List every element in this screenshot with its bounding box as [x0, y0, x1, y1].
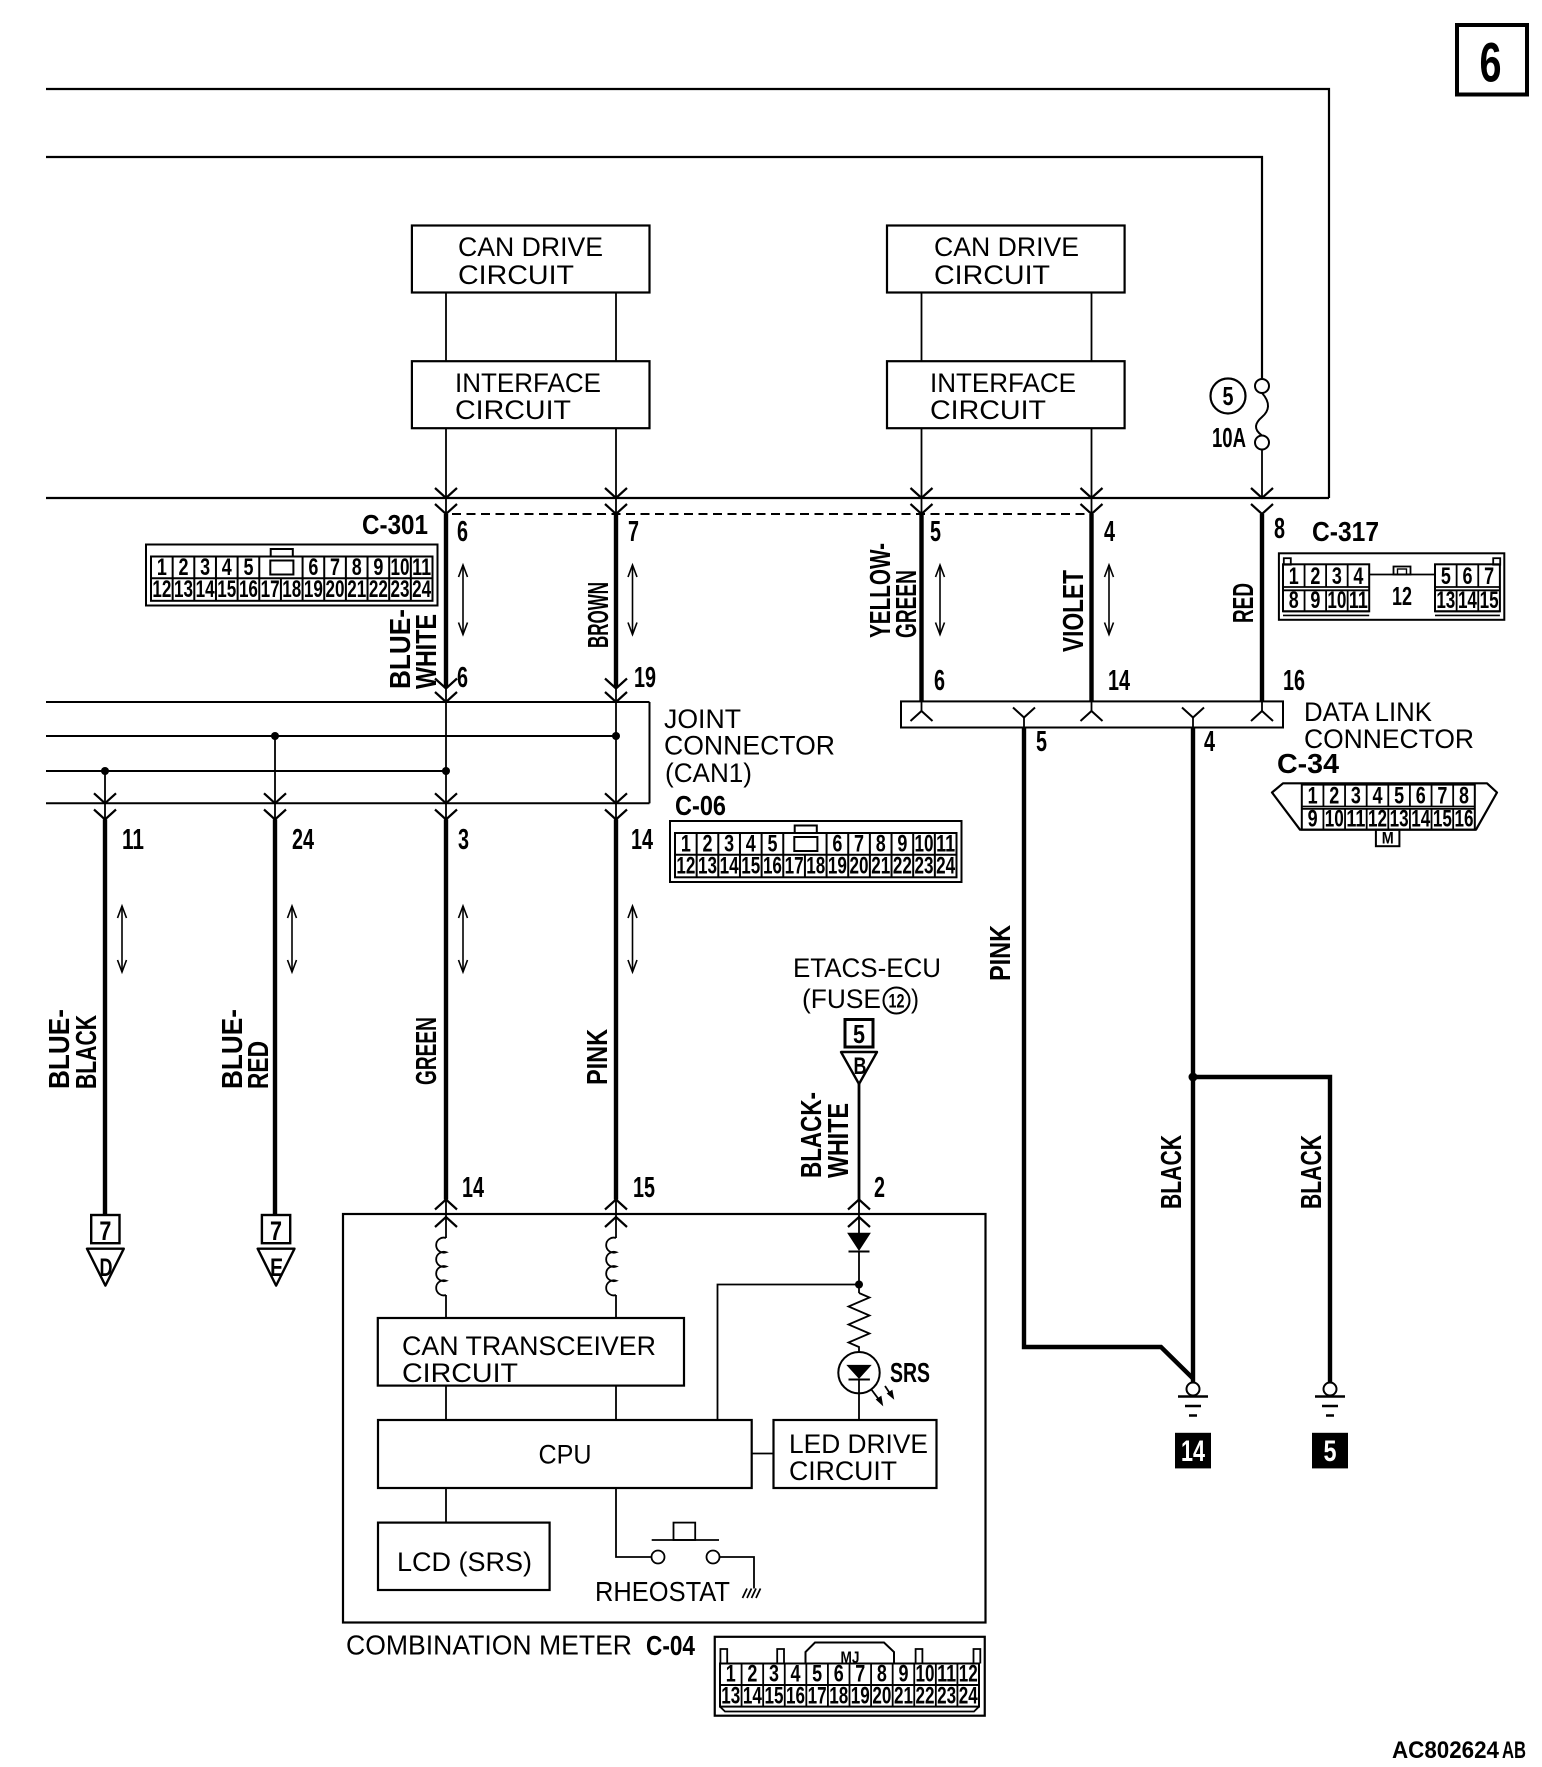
- svg-text:12: 12: [889, 992, 905, 1013]
- svg-text:C-34: C-34: [1277, 748, 1339, 779]
- wire GREEN (JC pin3 to meter pin14): [444, 820, 448, 1200]
- terminal fork out DLC (x1193): [1182, 708, 1204, 728]
- wire JC vertical x446: [445, 689, 447, 820]
- arrow bidirectional (BLUE-BLACK): [121, 906, 123, 972]
- node junction dot BLACK branch: [1189, 1073, 1198, 1082]
- svg-text:15: 15: [1480, 587, 1499, 614]
- arrow bidirectional (GREEN): [462, 906, 464, 972]
- wire fuse to bus: [1261, 450, 1263, 499]
- wire U2 pin to bus (x446): [445, 428, 447, 514]
- wire JC vertical x616: [615, 689, 617, 820]
- wire U4 pin to bus (x921): [921, 428, 923, 514]
- svg-text:14: 14: [1181, 1435, 1205, 1468]
- wire BLACK branch to ground 5: [1193, 1077, 1330, 1383]
- arrow bidirectional (PINK): [632, 906, 634, 972]
- label wire VIOLET: [1058, 570, 1090, 652]
- label wire BLACK (left run): [1156, 1135, 1188, 1209]
- svg-text:11: 11: [1349, 587, 1368, 614]
- wire junction to CPU: [718, 1285, 860, 1421]
- arrow bidirectional (BLUE-RED): [291, 906, 293, 972]
- svg-text:(CAN1): (CAN1): [665, 758, 752, 788]
- wire VIOLET (pin4 to DLC pin14): [1089, 514, 1093, 701]
- document code AC802624AB: [1392, 1737, 1526, 1764]
- wire RED (fuse to DLC pin16): [1260, 514, 1264, 701]
- terminal fork in DLC (x921.5): [911, 701, 933, 721]
- wire CPU to LCD: [445, 1488, 447, 1523]
- svg-text:): ): [911, 984, 919, 1014]
- terminal fork in DLC (x1262): [1251, 701, 1273, 721]
- svg-text:3: 3: [1332, 563, 1342, 590]
- wire LED to LED drive circuit: [858, 1393, 860, 1420]
- svg-text:BLACK: BLACK: [1156, 1135, 1188, 1209]
- svg-text:INTERFACE: INTERFACE: [455, 368, 601, 398]
- wire BLACK (DLC pin4 to ground 14): [1191, 728, 1195, 1383]
- connector C-34 pin table: [1272, 783, 1497, 848]
- terminal fork in DLC (x1091.5): [1081, 701, 1103, 721]
- connector crossing arrows meter pin 15: [605, 1200, 627, 1228]
- svg-text:5: 5: [1324, 1435, 1337, 1468]
- inductor coil L2: [606, 1238, 616, 1296]
- svg-text:LCD (SRS): LCD (SRS): [397, 1547, 532, 1577]
- svg-text:20: 20: [326, 576, 345, 603]
- svg-text:16: 16: [763, 853, 782, 880]
- svg-text:RHEOSTAT: RHEOSTAT: [595, 1576, 730, 1607]
- svg-text:10: 10: [1325, 806, 1344, 833]
- svg-text:PINK: PINK: [582, 1029, 614, 1085]
- inductor coil L1: [436, 1238, 446, 1296]
- junction block JOINT CONNECTOR (CAN1): [46, 702, 650, 803]
- svg-text:PINK: PINK: [985, 925, 1017, 981]
- svg-text:C-06: C-06: [675, 790, 726, 821]
- wire power rail B (second): [46, 157, 1262, 380]
- connector crossing arrows at bus (x921): [911, 488, 933, 514]
- wire pin2 to diode: [858, 1200, 860, 1234]
- svg-text:6: 6: [1462, 563, 1472, 590]
- connector crossing arrows JC bottom (x275): [264, 793, 286, 819]
- block CAN TRANSCEIVER CIRCUIT: [378, 1318, 684, 1388]
- svg-text:21: 21: [894, 1682, 913, 1709]
- svg-text:14: 14: [743, 1682, 762, 1709]
- resistor R1: [849, 1293, 870, 1352]
- svg-text:VIOLET: VIOLET: [1058, 570, 1090, 652]
- svg-text:8: 8: [1274, 513, 1285, 545]
- wire CPU to LED drive circuit: [752, 1453, 774, 1455]
- svg-text:7: 7: [99, 1216, 111, 1246]
- svg-text:14: 14: [720, 853, 739, 880]
- svg-text:INTERFACE: INTERFACE: [930, 368, 1076, 398]
- svg-text:9: 9: [1308, 806, 1318, 833]
- block CPU: [378, 1420, 752, 1488]
- svg-text:17: 17: [808, 1682, 827, 1709]
- connector crossing arrows at bus (x616): [605, 488, 627, 514]
- svg-text:15: 15: [764, 1682, 783, 1709]
- terminal fork out DLC (x1024): [1013, 708, 1035, 728]
- svg-text:21: 21: [347, 576, 366, 603]
- svg-text:11: 11: [1346, 806, 1365, 833]
- svg-text:18: 18: [806, 853, 825, 880]
- svg-text:18: 18: [829, 1682, 848, 1709]
- svg-text:CONNECTOR: CONNECTOR: [664, 731, 835, 761]
- svg-text:C-301: C-301: [362, 509, 428, 540]
- connector C-04 pin table: [715, 1637, 985, 1716]
- svg-text:AB: AB: [1502, 1737, 1526, 1764]
- svg-text:19: 19: [304, 576, 323, 603]
- connector crossing arrows JC bottom (x105): [94, 793, 116, 819]
- wire transceiver to CPU (x446): [445, 1386, 447, 1420]
- svg-text:14: 14: [462, 1172, 484, 1204]
- svg-text:6: 6: [934, 665, 945, 697]
- ground 5: [1312, 1383, 1348, 1469]
- svg-text:16: 16: [239, 576, 258, 603]
- wire JC vertical x105: [104, 771, 106, 820]
- svg-text:22: 22: [916, 1682, 935, 1709]
- arrow bidirectional (VIOLET): [1108, 565, 1110, 635]
- svg-text:15: 15: [1433, 806, 1452, 833]
- wire meter pin14 lead: [445, 1200, 447, 1239]
- wire rheostat to internal ground: [720, 1557, 755, 1589]
- node junction dot (105,771): [101, 767, 109, 775]
- svg-text:24: 24: [292, 824, 314, 856]
- label wire BROWN: [583, 582, 615, 648]
- connector C-301 pin table: [146, 545, 438, 606]
- wire BLUE-WHITE (C-301 pin6 to JC pin6): [444, 514, 448, 688]
- svg-text:19: 19: [851, 1682, 870, 1709]
- node junction dot (859,1284.5): [855, 1281, 863, 1289]
- block CAN DRIVE CIRCUIT (left) U1: [412, 226, 650, 293]
- label wire BLUE-RED: [217, 1009, 275, 1089]
- svg-text:21: 21: [871, 853, 890, 880]
- svg-text:18: 18: [282, 576, 301, 603]
- svg-text:D: D: [100, 1254, 113, 1282]
- arrow bidirectional (BLUE-WHITE): [462, 565, 464, 635]
- svg-text:20: 20: [872, 1682, 891, 1709]
- svg-text:19: 19: [634, 662, 656, 694]
- block COMBINATION METER outline: [343, 1214, 986, 1623]
- ground 14: [1175, 1383, 1211, 1469]
- power feed box 5: [845, 1019, 873, 1049]
- wire power rail A (top): [46, 89, 1329, 498]
- label wire BLACK (right run): [1296, 1135, 1328, 1209]
- block INTERFACE CIRCUIT (right) U4: [887, 361, 1125, 428]
- svg-text:15: 15: [217, 576, 236, 603]
- svg-text:12: 12: [1392, 581, 1412, 611]
- svg-text:B: B: [854, 1053, 867, 1080]
- svg-text:RED: RED: [243, 1041, 275, 1089]
- svg-text:23: 23: [391, 576, 410, 603]
- svg-text:14: 14: [1458, 587, 1477, 614]
- svg-text:5: 5: [1036, 726, 1047, 758]
- svg-text:CIRCUIT: CIRCUIT: [934, 260, 1050, 290]
- svg-text:17: 17: [785, 853, 804, 880]
- svg-text:14: 14: [631, 824, 653, 856]
- block CAN DRIVE CIRCUIT (right) U3: [887, 226, 1125, 293]
- svg-text:13: 13: [174, 576, 193, 603]
- connector crossing arrows at bus (x1262): [1251, 488, 1273, 514]
- svg-text:CIRCUIT: CIRCUIT: [455, 395, 571, 425]
- svg-text:BLACK: BLACK: [71, 1015, 103, 1089]
- wire U3 to U4 right: [1091, 293, 1093, 362]
- svg-text:AC802624: AC802624: [1392, 1737, 1500, 1764]
- label wire RED: [1228, 583, 1260, 623]
- svg-text:11: 11: [122, 824, 144, 856]
- label wire BLACK-WHITE: [796, 1092, 855, 1178]
- svg-text:CAN DRIVE: CAN DRIVE: [934, 232, 1079, 262]
- ground symbol 7-E: [258, 1215, 295, 1286]
- svg-text:DATA LINK: DATA LINK: [1304, 697, 1432, 727]
- svg-text:24: 24: [959, 1682, 978, 1709]
- wire BLUE-BLACK (JC pin11 to ground D): [103, 820, 107, 1216]
- wire L1 to CAN transceiver: [445, 1295, 447, 1318]
- svg-text:LED DRIVE: LED DRIVE: [789, 1429, 928, 1459]
- rheostat switch contacts: [652, 1523, 720, 1564]
- wire CPU to rheostat: [616, 1488, 652, 1557]
- connector C-317 pin table: [1279, 553, 1504, 620]
- svg-text:4: 4: [1104, 516, 1115, 548]
- svg-text:WHITE: WHITE: [823, 1103, 855, 1178]
- node bus line (connector interface line): [46, 497, 1329, 499]
- fuse 5 10A: [1255, 379, 1269, 450]
- svg-text:CIRCUIT: CIRCUIT: [789, 1456, 897, 1486]
- svg-text:22: 22: [893, 853, 912, 880]
- LED light arrows: [871, 1386, 894, 1405]
- label ETACS-ECU (FUSE 12): [793, 953, 941, 1014]
- svg-text:13: 13: [1436, 587, 1455, 614]
- wire JC internal bus 2 (row 771): [46, 770, 446, 772]
- arrow bidirectional (YELLOW-GREEN): [939, 565, 941, 635]
- svg-text:6: 6: [457, 662, 468, 694]
- junction block DATA LINK CONNECTOR: [901, 701, 1283, 727]
- svg-text:JOINT: JOINT: [664, 704, 741, 734]
- svg-text:1: 1: [1289, 563, 1299, 590]
- svg-text:7: 7: [1484, 563, 1494, 590]
- wire U1 to U2 left: [445, 293, 447, 362]
- svg-text:4: 4: [1353, 563, 1363, 590]
- svg-text:SRS: SRS: [890, 1357, 930, 1388]
- svg-text:5: 5: [930, 516, 941, 548]
- svg-text:20: 20: [850, 853, 869, 880]
- svg-text:12: 12: [676, 853, 695, 880]
- svg-text:15: 15: [633, 1172, 655, 1204]
- node junction dot (446,771): [442, 767, 450, 775]
- svg-text:CIRCUIT: CIRCUIT: [402, 1358, 518, 1388]
- svg-text:ETACS-ECU: ETACS-ECU: [793, 953, 941, 983]
- connector crossing arrows at bus (x446): [435, 488, 457, 514]
- svg-text:GREEN: GREEN: [411, 1017, 443, 1085]
- svg-text:5: 5: [1441, 563, 1451, 590]
- svg-text:5: 5: [1223, 381, 1234, 411]
- block INTERFACE CIRCUIT (left) U2: [412, 361, 650, 428]
- svg-text:5: 5: [853, 1019, 865, 1049]
- wire U3 to U4 left: [921, 293, 923, 362]
- svg-text:19: 19: [828, 853, 847, 880]
- page number 6 box: [1457, 25, 1527, 95]
- svg-text:13: 13: [721, 1682, 740, 1709]
- wire YELLOW-GREEN (pin5 to DLC pin6): [919, 514, 923, 701]
- label DATA LINK CONNECTOR: [1304, 697, 1474, 754]
- svg-text:CPU: CPU: [539, 1440, 592, 1470]
- label wire PINK: [582, 1029, 614, 1085]
- label JOINT CONNECTOR (CAN1): [664, 704, 835, 788]
- connector crossing arrows JC bottom (x446): [435, 793, 457, 819]
- wire BROWN (C-301 pin7 to JC pin19): [614, 514, 618, 688]
- svg-text:WHITE: WHITE: [411, 614, 443, 689]
- label wire PINK (right): [985, 925, 1017, 981]
- connector crossing arrows at bus (x1091): [1081, 488, 1103, 514]
- connector C-06 pin table: [670, 821, 962, 882]
- svg-text:CIRCUIT: CIRCUIT: [458, 260, 574, 290]
- wire diode to junction: [858, 1252, 860, 1294]
- svg-text:4: 4: [1204, 726, 1215, 758]
- svg-text:BROWN: BROWN: [583, 582, 615, 648]
- wire L2 to CAN transceiver: [615, 1295, 617, 1318]
- diode D1: [849, 1234, 870, 1252]
- internal ground hatch: [743, 1589, 761, 1599]
- svg-text:E: E: [270, 1254, 283, 1282]
- svg-text:23: 23: [937, 1682, 956, 1709]
- svg-text:16: 16: [786, 1682, 805, 1709]
- wire BLUE-RED (JC pin24 to ground E): [273, 820, 277, 1216]
- svg-text:7: 7: [270, 1216, 282, 1246]
- svg-text:23: 23: [915, 853, 934, 880]
- svg-text:CIRCUIT: CIRCUIT: [930, 395, 1046, 425]
- svg-text:8: 8: [1289, 587, 1299, 614]
- svg-text:16: 16: [1283, 665, 1305, 697]
- svg-text:10: 10: [1327, 587, 1346, 614]
- wire BLACK-WHITE (ETACS to meter pin2): [858, 1084, 861, 1200]
- svg-text:10A: 10A: [1212, 422, 1246, 453]
- label wire YELLOW-GREEN: [865, 543, 923, 638]
- wire U4 pin to bus (x1091): [1091, 428, 1093, 514]
- svg-text:M: M: [1382, 829, 1394, 848]
- svg-text:6: 6: [1480, 31, 1502, 94]
- block LED DRIVE CIRCUIT: [774, 1420, 937, 1488]
- svg-text:C-317: C-317: [1312, 516, 1379, 547]
- svg-text:CAN TRANSCEIVER: CAN TRANSCEIVER: [402, 1331, 656, 1361]
- svg-text:14: 14: [1108, 665, 1130, 697]
- svg-text:22: 22: [369, 576, 388, 603]
- connector crossing arrows JC top (x616): [605, 679, 627, 703]
- block LCD (SRS): [378, 1523, 550, 1590]
- svg-text:BLACK: BLACK: [1296, 1135, 1328, 1209]
- svg-text:24: 24: [412, 576, 431, 603]
- svg-text:14: 14: [196, 576, 215, 603]
- arrow bidirectional (BROWN): [632, 565, 634, 635]
- ground symbol 7-D: [87, 1215, 124, 1286]
- svg-text:9: 9: [1310, 587, 1320, 614]
- svg-text:13: 13: [698, 853, 717, 880]
- wire dashed connector boundary: [452, 513, 1092, 515]
- svg-text:RED: RED: [1228, 583, 1260, 623]
- LED SRS: [838, 1352, 879, 1393]
- wire PINK (DLC pin5 to ground 14): [1024, 728, 1193, 1379]
- wire U1 to U2 right: [615, 293, 617, 362]
- svg-text:3: 3: [458, 824, 469, 856]
- svg-text:(FUSE: (FUSE: [802, 984, 881, 1014]
- label wire BLUE-BLACK: [44, 1009, 103, 1089]
- svg-text:7: 7: [628, 516, 639, 548]
- wire transceiver to CPU (x616): [615, 1386, 617, 1420]
- svg-text:C-04: C-04: [646, 1630, 695, 1661]
- power feed triangle B: [841, 1052, 877, 1084]
- svg-text:2: 2: [874, 1172, 885, 1204]
- svg-text:12: 12: [152, 576, 171, 603]
- wire PINK (JC pin14 to meter pin15): [614, 820, 618, 1200]
- connector crossing arrows JC bottom (x616): [605, 793, 627, 819]
- svg-text:15: 15: [741, 853, 760, 880]
- svg-text:24: 24: [936, 853, 955, 880]
- label wire BLUE-WHITE: [385, 609, 443, 689]
- wire meter pin15 lead: [615, 1200, 617, 1239]
- node junction dot (616,736): [612, 732, 620, 740]
- label wire GREEN: [411, 1017, 443, 1085]
- connector crossing arrows meter pin 2: [848, 1200, 870, 1228]
- wire U2 pin to bus (x616): [615, 428, 617, 514]
- svg-text:14: 14: [1411, 806, 1430, 833]
- svg-text:16: 16: [1454, 806, 1473, 833]
- svg-text:2: 2: [1310, 563, 1320, 590]
- wire JC vertical x275: [274, 736, 276, 820]
- node junction dot (275,736): [271, 732, 279, 740]
- connector crossing arrows meter pin 14: [435, 1200, 457, 1228]
- svg-text:6: 6: [457, 516, 468, 548]
- connector crossing arrows JC top (x446): [435, 679, 457, 703]
- fuse label circled 5: [1211, 379, 1246, 414]
- svg-text:GREEN: GREEN: [891, 570, 923, 638]
- wire JC internal bus 1 (row 736): [46, 735, 616, 737]
- svg-text:CAN DRIVE: CAN DRIVE: [458, 232, 603, 262]
- svg-text:17: 17: [261, 576, 280, 603]
- svg-text:COMBINATION METER: COMBINATION METER: [346, 1630, 632, 1661]
